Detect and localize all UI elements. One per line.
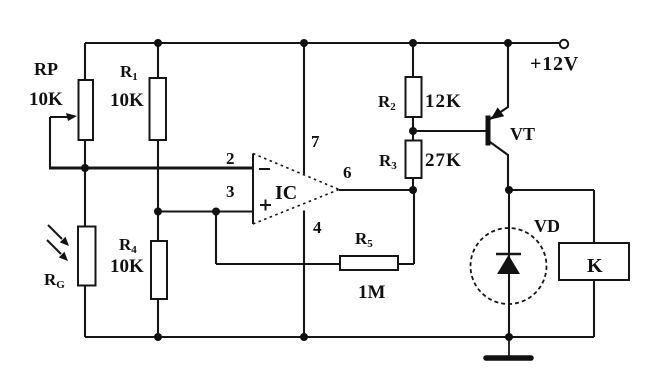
- pin 6 label: [343, 163, 352, 182]
- wire left column (RP branch): [84, 43, 86, 337]
- node bottom rail / R4: [154, 333, 162, 341]
- resistor R4: [110, 235, 167, 299]
- diode VD (in dashed circle): [471, 216, 561, 304]
- node top rail / pin7: [300, 39, 308, 47]
- relay K: [559, 243, 629, 280]
- svg-text:3: 3: [226, 182, 235, 201]
- node emitter / VD / relay: [505, 186, 513, 194]
- resistor R2: [378, 77, 462, 117]
- ground: [486, 337, 531, 358]
- node bottom rail / ground: [505, 333, 513, 341]
- pin 4 label: [313, 218, 322, 237]
- svg-text:2: 2: [226, 149, 235, 168]
- wire R1 leads: [157, 43, 159, 212]
- wire R2 R3 column: [412, 43, 414, 190]
- wire VT emitter lead: [490, 142, 508, 190]
- pin 2 label: [226, 149, 235, 168]
- +12V terminal: [530, 40, 579, 75]
- wire inverting input (pin 2, thick): [49, 167, 253, 170]
- svg-text:10K: 10K: [29, 89, 63, 110]
- resistor R1: [110, 62, 166, 140]
- op-amp U1 (IC): [253, 154, 339, 225]
- svg-text:+12V: +12V: [530, 53, 579, 75]
- svg-text:VD: VD: [534, 216, 560, 236]
- svg-text:VT: VT: [510, 124, 535, 144]
- svg-text:4: 4: [313, 218, 322, 237]
- wire RP wiper path: [50, 117, 70, 168]
- photoresistor RG: [44, 225, 96, 291]
- node feedback tap: [212, 208, 220, 216]
- wire op-amp pin 7 supply line: [303, 43, 305, 174]
- wire top supply rail: [85, 42, 559, 44]
- node R1 bottom / pin3: [154, 208, 162, 216]
- wire output pin 6: [339, 189, 413, 191]
- svg-text:IC: IC: [275, 182, 297, 204]
- resistor R3: [379, 141, 462, 179]
- wire VT collector lead: [490, 43, 508, 119]
- svg-text:7: 7: [311, 132, 320, 151]
- node bottom rail / pin4: [300, 333, 308, 341]
- resistor R5: [340, 229, 398, 303]
- node top rail / VT collector: [504, 39, 512, 47]
- node R2/R3 base: [409, 127, 417, 135]
- transistor Q1 VT: [488, 107, 535, 145]
- wire feedback right branch: [398, 190, 414, 264]
- node output pin6: [409, 186, 417, 194]
- svg-text:K: K: [587, 255, 603, 277]
- wire R4 leads: [157, 212, 159, 338]
- wire relay branch: [593, 190, 595, 337]
- node RP wiper junction: [81, 164, 89, 172]
- pin 3 label: [226, 182, 235, 201]
- potentiometer RP: [29, 59, 93, 140]
- wire emitter node to relay: [509, 189, 594, 191]
- wire op-amp pin 4 supply line: [303, 211, 305, 338]
- svg-text:6: 6: [343, 163, 352, 182]
- svg-text:10K: 10K: [110, 256, 144, 277]
- pin 7 label: [311, 132, 320, 151]
- wire VD branch: [508, 190, 510, 337]
- wire bottom ground rail: [85, 336, 594, 338]
- wire base drive: [413, 130, 486, 132]
- svg-text:12K: 12K: [425, 91, 462, 112]
- svg-text:1M: 1M: [358, 282, 386, 303]
- wire non-inverting input (pin 3): [158, 210, 253, 212]
- svg-text:27K: 27K: [425, 150, 462, 171]
- svg-text:10K: 10K: [110, 90, 144, 111]
- node top rail / R1: [154, 39, 162, 47]
- wire feedback left branch: [216, 212, 340, 265]
- svg-text:RP: RP: [34, 59, 58, 79]
- node top rail / R2: [409, 39, 417, 47]
